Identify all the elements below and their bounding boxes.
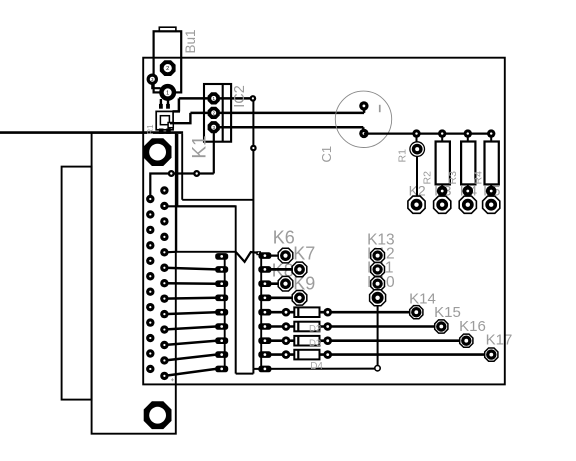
svg-text:IC2: IC2	[232, 85, 248, 108]
svg-text:R4: R4	[472, 171, 484, 185]
svg-text:K16: K16	[459, 318, 486, 335]
svg-text:R2: R2	[421, 171, 433, 185]
svg-text:R3: R3	[447, 171, 459, 185]
svg-text:K15: K15	[434, 304, 461, 321]
svg-text:2: 2	[166, 66, 169, 72]
svg-text:K7: K7	[293, 244, 315, 264]
svg-text:R1: R1	[146, 124, 155, 135]
svg-text:K6: K6	[273, 228, 295, 248]
svg-text:Bu1: Bu1	[183, 29, 198, 53]
svg-text:D2: D2	[309, 324, 321, 335]
svg-text:R1: R1	[397, 149, 409, 163]
svg-text:K17: K17	[486, 332, 513, 349]
svg-text:K14: K14	[409, 290, 436, 307]
svg-text:D3: D3	[309, 338, 321, 349]
svg-text:D4: D4	[310, 361, 323, 372]
svg-text:1: 1	[166, 90, 169, 96]
svg-text:K1: K1	[189, 135, 210, 158]
svg-text:C1: C1	[319, 146, 334, 163]
